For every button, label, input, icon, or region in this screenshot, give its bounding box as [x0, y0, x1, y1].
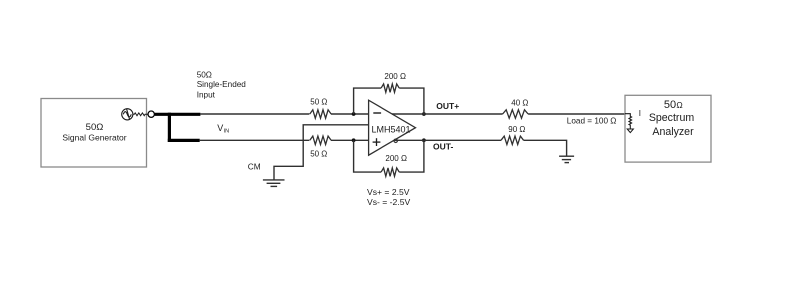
- svg-text:Signal Generator: Signal Generator: [62, 133, 126, 143]
- svg-text:Vs+ = 2.5V: Vs+ = 2.5V: [367, 187, 410, 197]
- svg-text:I: I: [639, 109, 641, 118]
- resistor R5 40Ω: [503, 110, 528, 118]
- ground (output): [559, 156, 574, 162]
- label VIN: [217, 123, 229, 135]
- resistor R3 200Ω top feedback: [381, 84, 399, 92]
- analyzer internal load resistor: [625, 114, 632, 129]
- svg-text:LMH5401: LMH5401: [372, 125, 411, 135]
- node junction dot (inverting input): [352, 112, 356, 116]
- svg-text:Vs- = -2.5V: Vs- = -2.5V: [367, 197, 410, 207]
- svg-text:50: 50: [664, 99, 676, 111]
- node junction dot (OUT-): [422, 138, 426, 142]
- resistor R2 50Ω bottom input: [310, 136, 331, 144]
- svg-text:50Ω: 50Ω: [197, 71, 212, 80]
- svg-text:50 Ω: 50 Ω: [310, 98, 327, 107]
- svg-text:Analyzer: Analyzer: [652, 126, 694, 138]
- wire R5 to analyzer: [528, 113, 625, 115]
- label 50Ω Single-Ended Input: [197, 71, 247, 100]
- resistor R1 50Ω top input: [310, 110, 331, 118]
- svg-text:OUT-: OUT-: [433, 142, 453, 152]
- port terminal circle: [148, 111, 154, 117]
- svg-text:200 Ω: 200 Ω: [384, 72, 406, 81]
- current arrow: [627, 129, 633, 133]
- ground (CM): [263, 180, 285, 187]
- wire R6 to ground: [524, 140, 567, 156]
- op-amp minus pin mark: [373, 112, 381, 114]
- source output squiggle: [133, 113, 148, 116]
- feedback wire top: [354, 88, 382, 114]
- thick bus wire bottom: [168, 139, 200, 142]
- wire CM pin: [274, 125, 369, 180]
- svg-text:Input: Input: [197, 90, 216, 99]
- svg-text:Load = 100 Ω: Load = 100 Ω: [567, 117, 617, 126]
- svg-text:Single-Ended: Single-Ended: [197, 80, 247, 89]
- resistor R4 200Ω bottom feedback: [381, 168, 399, 176]
- feedback wire bottom: [354, 140, 382, 172]
- op-amp U1 LMH5401: [369, 100, 416, 155]
- svg-text:200 Ω: 200 Ω: [385, 154, 407, 163]
- svg-text:CM: CM: [248, 161, 261, 171]
- svg-text:Spectrum: Spectrum: [649, 112, 695, 124]
- thick bus wire top: [155, 113, 201, 116]
- node junction dot (non-inverting input): [352, 138, 356, 142]
- svg-text:Ω: Ω: [676, 100, 682, 110]
- svg-text:40 Ω: 40 Ω: [511, 99, 528, 108]
- svg-text:50Ω: 50Ω: [86, 122, 104, 133]
- thick bus wire vertical: [168, 113, 171, 142]
- resistor R6 90Ω: [501, 136, 524, 144]
- feedback wire top right: [399, 88, 424, 114]
- wire R2 to amp plus input: [331, 139, 369, 141]
- wire bottom rail to R2: [200, 139, 310, 141]
- wire OUT-: [394, 139, 501, 141]
- signal generator box: [41, 99, 147, 168]
- AC source V1: [122, 109, 133, 120]
- op-amp inverting output bubble: [394, 139, 397, 142]
- wire R1 to amp minus input: [331, 113, 369, 115]
- wire top rail to R1: [200, 113, 309, 115]
- svg-text:IN: IN: [224, 128, 230, 134]
- svg-text:50 Ω: 50 Ω: [310, 149, 327, 158]
- op-amp plus pin mark: [373, 138, 381, 146]
- node junction dot (OUT+): [422, 112, 426, 116]
- svg-text:V: V: [217, 123, 223, 133]
- wire OUT+: [392, 113, 503, 115]
- analyzer label 50Ω: [664, 99, 683, 111]
- spectrum analyzer box: [625, 95, 711, 162]
- feedback wire bottom right: [399, 140, 424, 172]
- svg-text:90 Ω: 90 Ω: [508, 125, 525, 134]
- svg-text:OUT+: OUT+: [436, 101, 459, 111]
